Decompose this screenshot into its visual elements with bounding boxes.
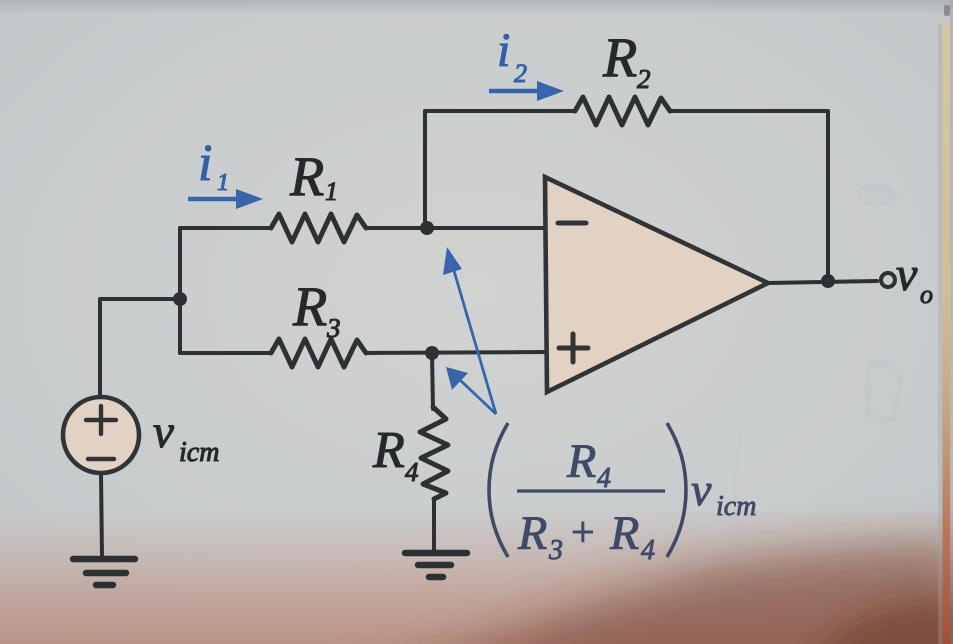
svg-text:3: 3 [326, 313, 341, 343]
source Vicm [63, 397, 139, 473]
svg-text:o: o [920, 280, 933, 309]
label v_icm at source [153, 406, 219, 468]
svg-text:+: + [571, 510, 595, 556]
resistor R2 [575, 97, 670, 125]
svg-text:R: R [602, 27, 637, 89]
svg-text:R: R [292, 276, 327, 338]
formula fraction bar [517, 489, 665, 492]
svg-text:R: R [289, 146, 324, 208]
ground under R4 [405, 553, 467, 577]
annotation arrow short (to plus node) [446, 367, 496, 414]
svg-text:R: R [609, 507, 639, 560]
svg-text:4: 4 [405, 457, 419, 487]
label R1 [289, 146, 338, 208]
faint ghost print [735, 188, 900, 550]
svg-text:2: 2 [514, 59, 527, 88]
label R2 [602, 27, 651, 94]
svg-text:2: 2 [637, 64, 651, 94]
svg-text:3: 3 [548, 535, 563, 566]
resistor R3 [271, 339, 366, 367]
svg-text:i: i [198, 135, 212, 192]
page edge strip right [938, 24, 943, 644]
wire R3 row left [180, 351, 271, 355]
label i1 (blue) [198, 135, 229, 196]
node A (R1/op-amp minus) [420, 221, 434, 235]
label i2 (blue) [497, 24, 527, 88]
source plus [86, 406, 116, 434]
source minus [88, 457, 114, 461]
wire R1 row left [180, 226, 271, 230]
ground under source [73, 559, 135, 585]
svg-text:R: R [372, 422, 405, 479]
wire feedback right [670, 111, 828, 281]
annotation arrow long (to minus node) [443, 247, 496, 414]
svg-text:icm: icm [716, 491, 756, 522]
small mark near strip top [944, 5, 950, 16]
label R3 [292, 276, 341, 343]
wire left rail [178, 228, 182, 353]
svg-text:i: i [497, 24, 510, 77]
svg-text:v: v [691, 464, 712, 515]
op-amp minus sign [558, 221, 586, 226]
wire feedback left vertical [425, 111, 575, 228]
svg-text:1: 1 [325, 177, 338, 206]
wire R4 to ground [432, 500, 436, 551]
op-amp U1 [545, 177, 768, 392]
output terminal circle [881, 273, 895, 287]
svg-text:v: v [153, 406, 174, 458]
label v_o at output [896, 248, 933, 309]
svg-text:icm: icm [179, 437, 219, 468]
formula right paren [667, 423, 686, 557]
label R4 [372, 422, 419, 487]
svg-text:v: v [896, 248, 918, 301]
wire op-amp output [768, 281, 877, 283]
svg-text:R: R [517, 507, 547, 560]
node C (source/rail) [173, 292, 187, 306]
wire source to rail [100, 299, 180, 397]
resistor R4 [420, 407, 448, 499]
wire R3 row right to op-amp [366, 352, 546, 353]
wire R1 row right to op-amp [366, 226, 546, 230]
wire R4 branch [432, 353, 433, 409]
resistor R1 [271, 214, 366, 242]
node B (R3/R4) [425, 346, 439, 360]
arrow i1 [188, 189, 263, 209]
svg-text:4: 4 [641, 535, 655, 566]
svg-text:1: 1 [217, 170, 229, 196]
arrow i2 [489, 81, 564, 101]
wire source lower lead [101, 473, 102, 557]
svg-text:4: 4 [597, 463, 611, 494]
node D (output) [821, 274, 835, 288]
formula left paren [489, 423, 508, 557]
op-amp plus sign [559, 334, 588, 362]
svg-text:R: R [566, 435, 596, 488]
